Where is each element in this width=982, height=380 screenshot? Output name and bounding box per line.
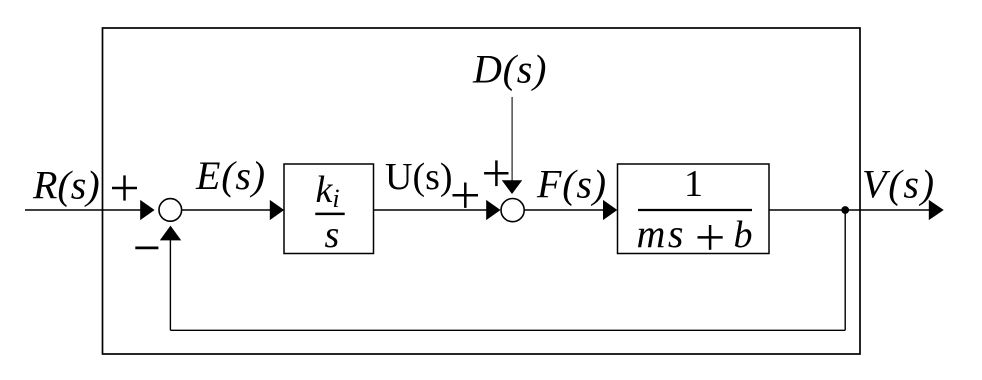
- summing junction 1: [159, 199, 182, 222]
- block 1/(ms+b): [618, 164, 770, 254]
- wire junction1 to integrator block: [182, 209, 271, 211]
- svg-text:ms: ms: [637, 211, 686, 256]
- fraction bar of 1/(ms+b): [638, 209, 752, 211]
- feedback wire from pickoff down: [844, 210, 846, 330]
- svg-text:F(s): F(s): [536, 162, 607, 207]
- wire integrator to summing junction 2: [374, 209, 487, 211]
- output arrowhead: [929, 200, 944, 220]
- block ki/s: [284, 164, 374, 254]
- svg-text:V(s): V(s): [862, 161, 936, 206]
- svg-text:R(s): R(s): [32, 163, 100, 208]
- svg-text:s: s: [325, 214, 340, 256]
- arrowhead up into summing junction 1 (feedback): [160, 226, 181, 241]
- plus sign at summing junction 1: [112, 175, 137, 200]
- arrowhead into summing junction 1: [140, 200, 154, 220]
- svg-text:b: b: [734, 214, 753, 256]
- plus sign at D(s) entry: [484, 160, 508, 186]
- svg-text:D(s): D(s): [472, 46, 547, 91]
- feedback wire bottom horizontal: [170, 329, 845, 331]
- wire plant to output V(s): [769, 209, 929, 211]
- arrowhead down into summing junction 2: [502, 180, 522, 194]
- arrowhead into plant block: [603, 200, 617, 220]
- summing junction 2: [501, 199, 524, 222]
- fraction bar of ki/s: [315, 213, 344, 216]
- outer boundary box: [103, 28, 861, 354]
- svg-text:E(s): E(s): [195, 153, 266, 198]
- svg-text:1: 1: [684, 163, 703, 205]
- arrowhead into integrator block: [270, 200, 284, 220]
- minus sign at summing junction 1: [135, 247, 158, 250]
- node dot (pickoff point): [841, 206, 849, 214]
- arrowhead into summing junction 2: [486, 200, 500, 220]
- svg-text:U(s): U(s): [385, 156, 453, 198]
- wire D(s) down to summing junction 2: [511, 97, 513, 181]
- plus sign below U(s): [453, 183, 479, 208]
- wire junction2 to plant block: [524, 209, 603, 211]
- feedback wire up to junction 1: [169, 240, 171, 330]
- wire input R(s): [25, 209, 141, 211]
